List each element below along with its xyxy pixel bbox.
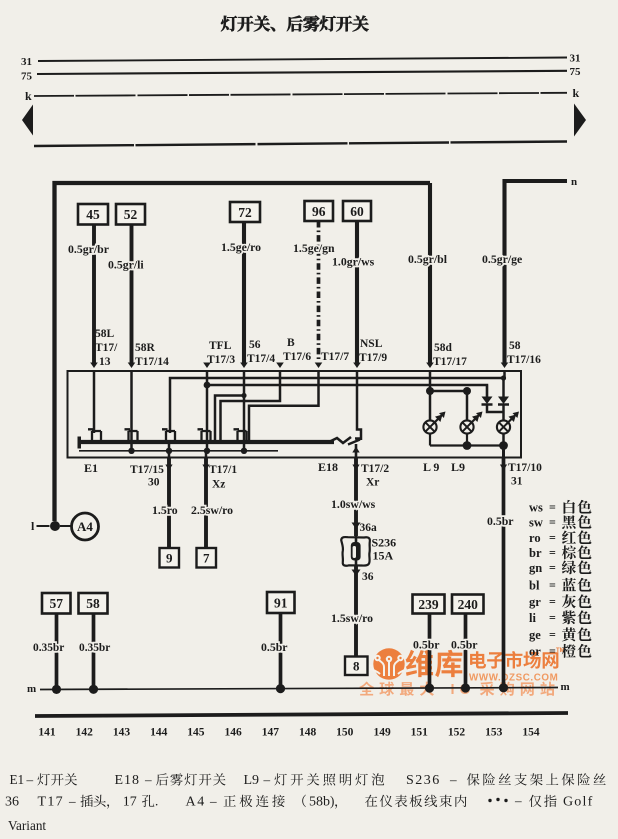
svg-text:1.5ro: 1.5ro [152,503,178,517]
watermark logo circle [373,648,404,679]
svg-text:96: 96 [312,204,326,219]
diode D2 [498,397,509,405]
svg-text:T17/4: T17/4 [247,353,275,365]
lamp L9 #2 [460,420,473,433]
svg-text:E18: E18 [115,773,141,788]
terminal box 7 [197,548,217,568]
wire from 72 (1.5ge/ro) [242,222,246,364]
terminal box 9 [160,548,180,568]
svg-text:ro: ro [529,531,541,545]
svg-text:m: m [561,681,570,693]
svg-text:li: li [529,611,536,625]
svg-text:L 9: L 9 [423,460,439,474]
svg-text:T17/6: T17/6 [283,351,311,363]
svg-text:30: 30 [148,477,160,489]
rail 75 line [37,71,567,74]
switch contact bump 3 [162,429,175,442]
junction lamp row 2 [463,387,471,395]
svg-text:148: 148 [299,727,317,739]
wire from 96 dash-dot (1.5ge/gn, Golf Variant only) [317,221,321,362]
svg-text:=: = [549,595,556,609]
pin arrow T17/14 [128,363,136,369]
wire diode1 elbow [487,405,504,413]
wire stair T17/6 to contact [221,371,281,442]
svg-text:T17/14: T17/14 [135,356,169,368]
svg-text:=: = [549,546,556,560]
switch E18 fixed contact [348,439,361,445]
watermark 维库 [406,650,433,677]
pin arrow T17/6 [276,363,284,369]
svg-text:T17/: T17/ [95,342,118,354]
wire diode2 to lamp3 [502,405,505,421]
svg-text:17: 17 [123,795,137,810]
svg-text:br: br [529,546,542,560]
pin arrow T17/13 [90,363,98,369]
wire 239 to rail (0.5br) [428,614,432,689]
wire through fuse [355,536,358,566]
svg-text:147: 147 [262,727,280,739]
terminal box 72 [230,202,260,222]
svg-text:=: = [549,515,556,529]
svg-text:58R: 58R [135,342,156,354]
wire n-feed top [505,181,568,364]
svg-text:91: 91 [274,595,288,610]
wire from 52 (0.5gr/li) [130,225,134,365]
junction lamp bottom 3 [499,441,508,450]
svg-text:141: 141 [38,727,56,739]
junction rail m 57 [52,685,61,694]
svg-text:S236: S236 [406,773,441,788]
svg-text:T17/2: T17/2 [361,463,389,475]
track bar [35,713,568,716]
wire from 60 (1.0gr/ws) [355,221,359,364]
svg-text:0.35br: 0.35br [33,642,64,654]
wire lamp bottom row [429,434,431,446]
wire 58 to rail (0.35br) [92,614,96,689]
svg-text:36: 36 [362,571,374,583]
svg-text:56: 56 [249,339,261,351]
svg-text:0.5gr/ge: 0.5gr/ge [482,252,522,266]
svg-text:58L: 58L [95,328,115,340]
svg-text:Xz: Xz [212,479,225,491]
junction rail m 91 [276,684,285,693]
svg-text:T17/10: T17/10 [508,462,542,474]
svg-text:152: 152 [448,727,466,739]
svg-text:–: – [68,794,76,809]
svg-text:=: = [549,531,556,545]
svg-text:239: 239 [418,597,439,612]
wire T17/1 down (2.5sw/ro) [204,458,208,548]
svg-text:T17/17: T17/17 [433,356,467,368]
svg-text:36: 36 [5,795,19,810]
svg-text:–: – [209,794,217,809]
switch contact bump 1 [88,429,101,442]
svg-text:1.5sw/ro: 1.5sw/ro [331,611,373,625]
rail k line [34,93,567,96]
svg-text:ws: ws [529,501,543,515]
watermark 全球最大IC采购网站 [359,681,374,695]
svg-text:143: 143 [113,727,131,739]
svg-text:7: 7 [203,550,210,565]
fuse S236 element [351,542,361,561]
pin arrow T17/2 [352,465,359,471]
terminal box 8 [345,657,368,676]
connection A4 (58b positive connector) [72,513,99,540]
svg-text:T17/1: T17/1 [209,464,237,476]
pin arrow T17/15 [165,465,172,471]
svg-text:bl: bl [529,579,540,593]
svg-text:E18: E18 [318,460,338,474]
svg-text:1.5ge/ro: 1.5ge/ro [221,240,261,254]
terminal box 91 [267,592,295,613]
svg-text:31: 31 [511,476,523,488]
svg-text:WWW.DZSC.COM: WWW.DZSC.COM [469,673,558,684]
pin arrow T17/9 [353,363,361,369]
terminal box 58 [79,593,108,614]
terminal box 45 [78,204,108,225]
svg-text:153: 153 [485,727,503,739]
svg-text:=: = [549,578,556,592]
wire row C diode feed [207,385,487,397]
wire fuse down (1.5sw/ro) [354,566,358,657]
svg-text:0.5br: 0.5br [451,638,478,652]
wire sub-line to T17/1 [205,451,208,458]
svg-text:149: 149 [373,727,391,739]
pin arrow T17/7 [315,363,323,369]
svg-text:=: = [549,628,556,642]
svg-text:k: k [573,86,580,100]
wire T17/2 down (1.0sw/ws) [354,458,358,536]
svg-text:75: 75 [570,66,582,78]
rail 31 line [38,58,567,62]
svg-text:146: 146 [224,727,242,739]
svg-text:145: 145 [187,727,205,739]
wire E18 to T17/2 [355,444,358,458]
pin arrow T17/10 [500,465,507,471]
svg-text:L9: L9 [451,460,465,474]
svg-text:8: 8 [353,658,360,673]
diode D1 [486,385,488,397]
wire 91 to rail (0.5br) [279,613,283,689]
svg-text:–: – [144,772,152,787]
svg-text:Xr: Xr [366,477,379,489]
svg-text:15A: 15A [373,549,394,563]
svg-text:2.5sw/ro: 2.5sw/ro [191,503,233,517]
switch bar E1 (movable contact) [78,437,82,449]
svg-text:0.5br: 0.5br [261,640,288,654]
node 36a arrow [352,523,361,530]
svg-text:1.0gr/ws: 1.0gr/ws [332,255,375,269]
junction lamp bottom 2 [463,441,472,450]
title 灯开关、后雾灯开关 [221,16,237,32]
junction lamp row 1 [426,387,434,395]
svg-text:L9: L9 [244,773,260,788]
svg-text:31: 31 [570,53,581,65]
wire T17/4 vertical [243,371,246,451]
wire row B 58-feed [170,371,505,433]
svg-text:ge: ge [529,628,541,642]
svg-text:A4: A4 [186,795,206,810]
svg-text:154: 154 [522,727,540,739]
svg-text:58: 58 [86,596,100,611]
junction T17/4 stair [241,393,246,398]
svg-text:–: – [514,793,522,808]
svg-text:sw: sw [529,516,543,530]
svg-text:150: 150 [336,727,354,739]
svg-text:144: 144 [150,727,168,739]
svg-text:T17/3: T17/3 [207,354,235,366]
wire from 45 (0.5gr/br) [92,225,96,365]
terminal box 240 [452,595,484,614]
pin arrow T17/3 [203,363,211,369]
svg-text:gr: gr [529,595,541,609]
svg-text:58: 58 [509,340,521,352]
junction rail m 58 [89,685,98,694]
svg-text:–: – [26,772,34,787]
band bottom line [34,142,567,147]
svg-text:NSL: NSL [360,338,383,350]
svg-text:0.5br: 0.5br [413,638,440,652]
wire lamp1 drop [429,391,432,421]
svg-text:–: – [449,772,457,787]
wire T17/15 down (1.5ro) [167,458,171,548]
svg-text:36a: 36a [360,522,378,534]
terminal box 96 [305,201,334,221]
switch contact bump 2 [125,429,138,442]
svg-text:gn: gn [529,561,542,575]
watermark 电子市场网 [470,651,486,668]
svg-text:Variant: Variant [8,818,46,833]
svg-text:31: 31 [21,56,32,68]
svg-text:=: = [549,500,556,514]
wire bus 30-feed top edge [55,183,431,521]
junction rail m 239 [425,684,434,693]
switch unit box E1/E18 outline [68,371,522,458]
svg-text:=: = [549,561,556,575]
terminal box 239 [413,595,445,614]
wire bar to T17/15 [168,442,171,458]
svg-text:45: 45 [86,207,100,222]
svg-text:1.5ge/gn: 1.5ge/gn [293,241,335,255]
svg-text:60: 60 [350,204,364,219]
svg-text:T17/15: T17/15 [130,464,164,476]
svg-text:72: 72 [238,205,252,220]
svg-text:): ) [330,794,334,809]
svg-text:=: = [549,644,556,658]
wire to A4 [60,525,72,527]
switch contact bump 5 [234,429,247,442]
svg-text:52: 52 [124,207,138,222]
svg-text:0.5gr/li: 0.5gr/li [108,258,144,272]
band arrow right [574,104,586,137]
pin arrow T17/1 [202,465,209,471]
svg-text:58d: 58d [434,342,453,354]
svg-text:I: I [451,682,455,698]
terminal box 60 [343,201,371,221]
junction row B diode2 [501,375,506,380]
svg-text:0.35br: 0.35br [79,642,110,654]
pin arrow T17/16 [501,363,509,369]
junction rail m T17/10 [499,683,508,692]
svg-text:or: or [529,645,541,659]
svg-text:T17/16: T17/16 [507,354,541,366]
svg-text:0.5gr/br: 0.5gr/br [68,242,109,256]
wire lamp top row [430,390,467,393]
wire lamp3 to T17/10 [502,446,505,459]
switch sub-line below bar [79,450,278,452]
switch contact bump 4 [198,429,211,442]
wire T17/10 down (0.5br) [502,458,506,689]
svg-text:240: 240 [458,597,479,612]
wire 58d to lamp row [429,371,432,391]
svg-text:k: k [25,89,32,103]
svg-text:T17/7: T17/7 [321,351,349,363]
svg-text:–: – [263,772,271,787]
lamp L9 #1 [423,420,436,433]
wire NSL into E18 contact [357,371,361,440]
pin arrow T17/4 [240,363,248,369]
band arrow left [22,105,33,136]
svg-text:T17/9: T17/9 [359,352,387,364]
junction T17/3 row C [204,382,211,389]
junction A4 node [50,521,60,531]
svg-text:TFL: TFL [209,340,232,352]
svg-text:.: . [155,794,158,809]
svg-text:0.5gr/bl: 0.5gr/bl [408,252,448,266]
svg-text:m: m [27,683,36,695]
junction dots sub-line [128,448,134,454]
wire 57 to rail (0.35br) [55,614,59,689]
svg-text:T17: T17 [38,795,64,810]
svg-text:Golf: Golf [563,795,593,810]
svg-text:B: B [287,337,295,349]
wire T17/3 vertical [206,371,209,451]
wire 240 to rail (0.5br) [464,614,468,689]
svg-text:151: 151 [411,727,429,739]
junction rail m 240 [461,683,470,692]
svg-text:57: 57 [50,596,64,611]
wire stair T17/4 to contact [215,396,244,443]
svg-text:E1: E1 [84,461,98,475]
terminal box 57 [42,593,71,614]
wire lamp2 drop [466,391,469,421]
svg-text:9: 9 [166,550,173,565]
node 36 arrow [352,570,361,577]
wire T17/13 into contact 1 [93,371,96,433]
diode D2 feed from row B [502,378,505,397]
wire stair T17/7 to contact [249,371,319,442]
svg-text:A4: A4 [77,519,93,534]
svg-text:0.5br: 0.5br [487,514,514,528]
svg-text:=: = [549,611,556,625]
svg-text:75: 75 [21,71,33,83]
fuse S236 outline [341,537,370,566]
svg-text:n: n [571,176,577,188]
svg-text:142: 142 [76,727,94,739]
svg-text:58b: 58b [309,795,330,810]
terminal box 52 [116,204,145,225]
rail m [40,688,558,690]
pin arrow T17/17 [426,363,434,369]
svg-text:E1: E1 [10,772,25,787]
lamp L9 #3 [497,420,510,433]
svg-text:S236: S236 [372,536,397,550]
svg-text:13: 13 [99,356,111,368]
wire T17/14 into contact 2 [130,371,133,451]
wire 58d vertical (0.5gr/bl) [428,183,432,364]
svg-text:1.0sw/ws: 1.0sw/ws [331,497,376,511]
